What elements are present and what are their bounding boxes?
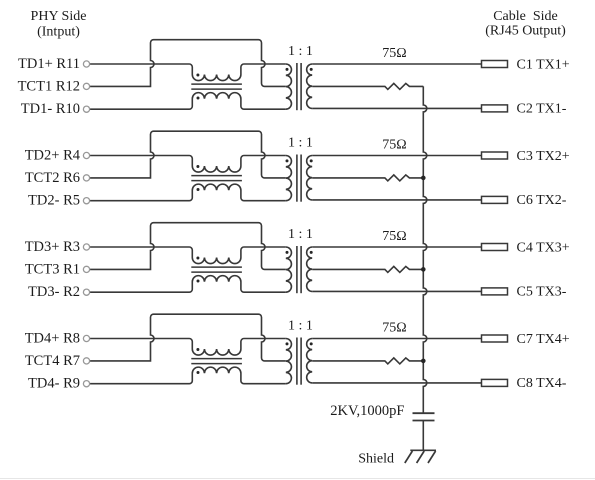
- svg-text:TD4- R9: TD4- R9: [28, 376, 80, 392]
- svg-text:TD1- R10: TD1- R10: [21, 101, 80, 117]
- svg-text:TCT3 R1: TCT3 R1: [25, 261, 80, 277]
- svg-text:C8 TX4-: C8 TX4-: [517, 376, 567, 391]
- svg-text:C3 TX2+: C3 TX2+: [517, 149, 570, 164]
- svg-text:TD2- R5: TD2- R5: [28, 193, 80, 209]
- svg-text:TD2+ R4: TD2+ R4: [25, 148, 81, 164]
- svg-text:1 : 1: 1 : 1: [288, 318, 313, 333]
- svg-text:C1 TX1+: C1 TX1+: [517, 57, 570, 72]
- svg-text:2KV,1000pF: 2KV,1000pF: [330, 403, 404, 419]
- svg-text:TD1+ R11: TD1+ R11: [18, 56, 80, 72]
- svg-text:C2 TX1-: C2 TX1-: [517, 102, 567, 117]
- svg-text:TCT1 R12: TCT1 R12: [18, 78, 80, 94]
- svg-text:1 : 1: 1 : 1: [288, 135, 313, 150]
- svg-text:75Ω: 75Ω: [382, 321, 406, 336]
- svg-text:Cable Side: Cable Side: [493, 9, 558, 24]
- svg-text:TCT4 R7: TCT4 R7: [25, 353, 80, 369]
- svg-text:75Ω: 75Ω: [382, 138, 406, 153]
- svg-text:75Ω: 75Ω: [382, 229, 406, 244]
- svg-text:C4 TX3+: C4 TX3+: [517, 240, 570, 255]
- svg-text:TD4+ R8: TD4+ R8: [25, 331, 80, 347]
- svg-text:TCT2 R6: TCT2 R6: [25, 170, 80, 186]
- svg-text:TD3- R2: TD3- R2: [28, 284, 80, 300]
- svg-text:(Intput): (Intput): [37, 25, 80, 40]
- svg-text:PHY Side: PHY Side: [31, 9, 87, 24]
- svg-text:C7 TX4+: C7 TX4+: [517, 332, 570, 347]
- svg-text:(RJ45 Output): (RJ45 Output): [485, 24, 566, 39]
- svg-text:75Ω: 75Ω: [382, 46, 406, 61]
- svg-text:Shield: Shield: [358, 451, 394, 466]
- svg-text:C5 TX3-: C5 TX3-: [517, 285, 567, 300]
- svg-text:1 : 1: 1 : 1: [288, 227, 313, 242]
- svg-text:C6 TX2-: C6 TX2-: [517, 193, 567, 208]
- svg-text:TD3+ R3: TD3+ R3: [25, 239, 80, 255]
- svg-text:1 : 1: 1 : 1: [288, 44, 313, 59]
